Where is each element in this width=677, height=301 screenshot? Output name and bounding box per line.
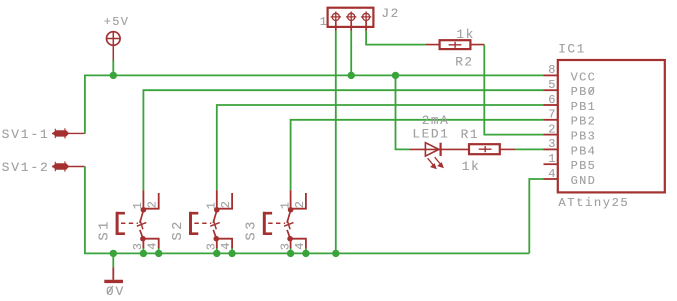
ground symbol 0V [104, 267, 123, 281]
svg-text:2: 2 [219, 200, 233, 209]
wire PB1 net to S2 [217, 105, 544, 190]
IC1 pin 3 stub [544, 148, 558, 150]
svg-text:R1: R1 [461, 127, 479, 142]
switch S1 [116, 190, 159, 248]
svg-text:S1: S1 [97, 219, 112, 240]
svg-text:1: 1 [278, 201, 292, 210]
svg-text:IC1: IC1 [558, 41, 586, 56]
svg-text:ATtiny25: ATtiny25 [558, 196, 629, 210]
IC1 pin 8 stub [544, 74, 558, 76]
wire J2 pin3 to R2 [366, 30, 425, 44]
junction S3 pin4 [302, 250, 309, 257]
connector pin SV1-1 [52, 128, 84, 138]
IC1 pin 7 stub [544, 119, 558, 121]
svg-text:5: 5 [548, 78, 557, 92]
svg-text:1k: 1k [462, 159, 480, 174]
IC IC1 ATtiny25 box [558, 60, 665, 192]
diode LED1 [409, 143, 469, 169]
svg-text:8: 8 [548, 63, 557, 77]
svg-text:J2: J2 [381, 6, 399, 21]
wire S2 pin3 pin4 stubs [217, 248, 232, 254]
svg-text:1: 1 [548, 152, 557, 166]
svg-text:R2: R2 [455, 54, 473, 69]
svg-text:1: 1 [131, 201, 145, 210]
svg-text:4: 4 [548, 167, 557, 181]
svg-text:6: 6 [548, 93, 557, 107]
svg-text:VCC: VCC [571, 70, 597, 84]
svg-text:3: 3 [131, 242, 145, 251]
junction S1 pin3 [140, 250, 147, 257]
svg-text:+5V: +5V [104, 15, 130, 29]
switch S3 [263, 190, 306, 248]
svg-text:4: 4 [219, 241, 233, 250]
wire +5V drop [112, 60, 114, 76]
svg-text:2: 2 [548, 122, 557, 136]
junction ground tap on GND rail [110, 250, 117, 257]
svg-text:1: 1 [320, 15, 329, 29]
wire PB0 net to S1 [143, 90, 543, 190]
wire bottom GND rail [84, 252, 529, 254]
resistor R1 [469, 144, 515, 154]
svg-text:3: 3 [205, 242, 219, 251]
svg-text:3: 3 [548, 137, 557, 151]
switch S2 [189, 190, 232, 248]
IC1 pin 1 stub [544, 163, 558, 165]
connector pin SV1-2 [52, 161, 84, 171]
svg-text:S2: S2 [171, 219, 186, 240]
junction +5V on VCC rail [110, 72, 117, 79]
wire PB2 net to S3 [291, 120, 544, 190]
svg-text:LED1: LED1 [412, 126, 449, 141]
LED1 emission arrow a [428, 158, 434, 165]
junction S2 pin3 [213, 250, 220, 257]
junction LED feed on VCC rail [392, 72, 399, 79]
IC1 pin 4 stub [544, 178, 558, 180]
svg-text:2: 2 [146, 200, 160, 209]
svg-text:SV1-2: SV1-2 [2, 160, 50, 175]
IC1 pin 6 stub [544, 104, 558, 106]
J2 pad 2 [348, 13, 355, 20]
wire SV1-2 to bottom rail [84, 166, 86, 253]
junction S3 pin3 [287, 250, 294, 257]
svg-text:1: 1 [205, 201, 219, 210]
svg-text:PB0: PB0 [571, 85, 597, 99]
svg-text:PB4: PB4 [571, 144, 597, 158]
wire VCC rail [85, 74, 544, 76]
junction J2 pin2 on VCC rail [348, 72, 355, 79]
junction J2 pin1 on GND rail [332, 250, 339, 257]
wire left vertical to SV1-1 [84, 75, 86, 134]
svg-text:PB1: PB1 [571, 100, 597, 114]
svg-text:SV1-1: SV1-1 [2, 127, 50, 142]
IC1 pin 2 stub [544, 134, 558, 136]
wire J2 pin2 to VCC rail [350, 30, 352, 75]
svg-text:2: 2 [293, 200, 307, 209]
wire R2 out to PB3 pin2 [484, 45, 543, 135]
svg-text:PB3: PB3 [571, 130, 597, 144]
wire R1 out to PB4 pin3 [515, 148, 544, 150]
svg-text:7: 7 [548, 108, 557, 122]
wire S1 pin3 pin4 stubs [143, 248, 158, 254]
svg-text:1k: 1k [456, 27, 474, 42]
LED1 emission arrow b [435, 157, 441, 164]
svg-text:PB2: PB2 [571, 115, 597, 129]
svg-text:3: 3 [278, 242, 292, 251]
svg-text:PB5: PB5 [571, 159, 597, 173]
junction S1 pin4 [155, 250, 162, 257]
svg-text:4: 4 [146, 241, 160, 250]
svg-text:S3: S3 [245, 219, 260, 240]
junction S2 pin4 [228, 250, 235, 257]
supply symbol +5V [107, 32, 121, 61]
wire J2 pin1 to GND rail [335, 30, 337, 253]
J2 pad 3 [363, 13, 370, 20]
svg-text:4: 4 [293, 241, 307, 250]
connector J2 [328, 8, 374, 31]
IC1 pin 5 stub [544, 89, 558, 91]
wire VCC to LED anode [396, 75, 410, 149]
wire GND pin4 to bottom rail [529, 179, 543, 253]
svg-text:GND: GND [571, 174, 597, 188]
J2 pad 1 [332, 13, 339, 20]
wire ground drop [112, 253, 114, 267]
resistor R2 [425, 40, 484, 49]
wire S3 pin3 pin4 stubs [291, 248, 306, 254]
